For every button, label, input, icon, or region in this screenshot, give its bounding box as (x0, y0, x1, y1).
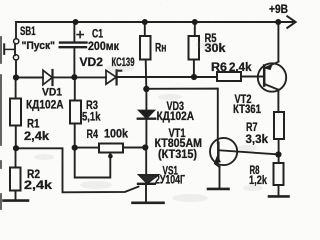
wire VD1 to C1 node (53, 76, 107, 78)
resistor R2 (10, 168, 21, 191)
wire R4 left lead (75, 147, 99, 149)
node VT2 emitter rail (275, 19, 281, 25)
capacitor C1 plates (60, 41, 87, 43)
node R5 bottom (191, 74, 197, 80)
node VD3 top branch (143, 86, 149, 92)
switch SB1 actuator cap (3, 44, 5, 54)
diode VD3 (139, 110, 155, 118)
wire SB1 bottom drop (15, 60, 17, 78)
node R4 wiper (108, 154, 113, 159)
wire node to VS1 (145, 148, 147, 175)
wire node89 to VD3 (145, 89, 147, 110)
resistor R4 (99, 144, 123, 153)
resistor R3 (70, 101, 81, 124)
switch SB1 bridge bar (14, 44, 16, 55)
resistor R6 (217, 72, 241, 81)
ground under VT1 (208, 188, 229, 191)
node R5 top (192, 19, 198, 25)
node +9V arrow (287, 16, 295, 28)
node C1 top (73, 19, 79, 25)
switch SB1 actuator stem (4, 48, 14, 50)
zener VD2 KC139 (106, 70, 116, 84)
wire VD3 to node (145, 119, 147, 148)
wire top +9V rail (16, 21, 293, 23)
node R3-R4 (72, 145, 78, 151)
wire R1R2 node to VS1 gate (16, 148, 139, 192)
transistor VT2 emitter (264, 62, 278, 69)
transistor VT1 base bar (217, 143, 220, 159)
transistor VT1 circle (210, 138, 237, 165)
node R1-R2 (13, 145, 19, 151)
wire R3 bottom lead (74, 124, 76, 148)
wire C1 bottom lead (73, 48, 75, 77)
ground under R8 (269, 195, 289, 198)
wire R8 bottom lead (278, 185, 280, 195)
wire node89 to VT1 base (146, 89, 217, 143)
node Rn top (142, 19, 148, 25)
transistor VT2 base bar (263, 66, 266, 86)
wire Rn bottom vertical (145, 60, 148, 90)
ground under R2 (4, 199, 29, 202)
wire SB1 top drop (15, 22, 17, 39)
ground under VS1 (133, 202, 164, 205)
transistor VT2 circle (258, 63, 286, 91)
resistor Rn (140, 36, 151, 60)
transistor VT1 emitter arrow (215, 157, 220, 164)
wire R6 to VT2 base (241, 76, 264, 78)
node R4-VD3 (142, 144, 148, 150)
wire R7 bottom lead (278, 139, 280, 163)
wire VT2 collector to R7 (277, 90, 279, 112)
wire R3 top lead (74, 77, 76, 101)
node C1-R3 (71, 74, 77, 80)
wire R4 wiper loop (75, 148, 111, 178)
transistor VT2 emitter arrow (265, 65, 272, 70)
thyristor VS1 (139, 175, 159, 184)
node SB1-R1-VD1 (13, 74, 19, 80)
resistor R1 (10, 99, 21, 126)
transistor VT2 collector (264, 84, 278, 90)
wire R4 right lead (123, 147, 146, 149)
wire VD2 to R6 (117, 76, 217, 78)
wire left node to VD1 (16, 77, 43, 79)
resistor R8 (274, 163, 284, 185)
resistor R5 (189, 36, 200, 60)
switch SB1 bottom contact (13, 55, 18, 60)
switch SB1 top contact (14, 39, 19, 44)
scan edge line left (0, 37, 2, 209)
wire VS1 cathode lead (145, 184, 147, 202)
resistor R7 (274, 112, 284, 139)
node R7-R8-VT1 (275, 151, 281, 157)
wire VT1 collector to node (219, 150, 278, 154)
wire VT2 emitter to rail (277, 22, 279, 62)
capacitor C1 plus sign (77, 32, 83, 38)
wire R2 bottom lead (15, 191, 17, 200)
wire R5 top lead (194, 22, 196, 36)
transistor VT1 emitter (215, 155, 220, 167)
wire Rn top lead (144, 22, 146, 36)
diode VD1 (43, 70, 52, 85)
wire R5 bottom lead (193, 60, 195, 78)
wire VT1 emitter to ground (219, 167, 221, 188)
wire R1 bottom lead (15, 126, 17, 149)
wire R2 top lead (15, 148, 17, 168)
wire R4 wiper tick (109, 153, 111, 156)
wire R1 top lead (15, 78, 17, 99)
wire C1 top lead (73, 22, 75, 42)
